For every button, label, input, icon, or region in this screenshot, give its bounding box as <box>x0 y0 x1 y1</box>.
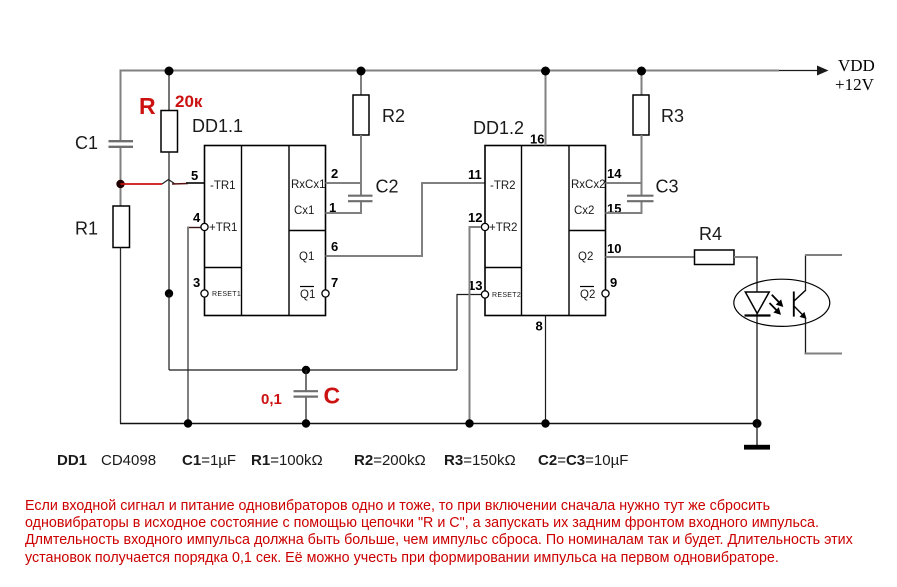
svg-text:R2: R2 <box>382 106 405 126</box>
values line DD1 CD4098 <box>57 452 156 469</box>
pin 11 -TR2 <box>468 167 516 192</box>
wire reset line up to RESET2 <box>457 295 482 371</box>
wire left branch from rail to C1 <box>120 70 122 141</box>
svg-text:R3: R3 <box>661 106 684 126</box>
svg-text:Если входной сигнал и питание: Если входной сигнал и питание одновибрат… <box>25 498 770 514</box>
junction dot RESET1 <box>165 289 173 297</box>
wire pin10 Q2 to R4 <box>606 256 695 258</box>
junction dot cap C bottom rail <box>302 419 310 427</box>
svg-text:C1=1µF: C1=1µF <box>182 452 236 469</box>
svg-text:DD1.1: DD1.1 <box>192 116 243 136</box>
svg-text:RxCx2: RxCx2 <box>571 179 606 191</box>
svg-text:Длмтельность входного импульса: Длмтельность входного импульса должна бы… <box>25 532 853 548</box>
svg-text:R: R <box>139 93 156 119</box>
junction dot cap C top <box>302 366 310 374</box>
wire Q1 pin6 to -TR2 pin11 <box>326 183 486 256</box>
svg-text:Q1: Q1 <box>300 289 315 301</box>
svg-text:6: 6 <box>331 239 338 254</box>
svg-text:Q2: Q2 <box>580 289 595 301</box>
svg-text:C3: C3 <box>656 177 679 197</box>
svg-text:Cx1: Cx1 <box>294 205 314 217</box>
wire R to RESET1 node <box>168 152 170 294</box>
wire +TR2 to bottom rail <box>470 227 482 424</box>
pin 9 Q2-bar bubble <box>580 275 617 301</box>
svg-text:2: 2 <box>331 166 338 181</box>
wire pin15 to C3 bottom <box>606 201 643 214</box>
svg-text:C2=C3=10µF: C2=C3=10µF <box>538 452 628 469</box>
junction dot +TR1 branch on bottom rail <box>184 419 192 427</box>
svg-text:DD1.2: DD1.2 <box>473 118 524 138</box>
wire VDD top rail <box>121 70 780 72</box>
wire R1 to bottom rail <box>120 248 122 424</box>
svg-text:9: 9 <box>610 275 617 290</box>
wire R2 to C2 <box>360 135 362 196</box>
optocoupler phototransistor Q <box>794 290 807 319</box>
pin 8 ground wire <box>536 316 546 424</box>
wire rail to resistor R <box>168 71 170 111</box>
svg-text:Q1: Q1 <box>299 251 314 263</box>
junction dot rail/R2 <box>357 67 366 76</box>
pin 7 Q1-bar bubble <box>300 275 338 301</box>
junction dot +TR2 bottom rail <box>465 419 473 427</box>
wire pin1 to C2 bottom <box>326 201 363 214</box>
wire reset line horizontal <box>169 369 457 371</box>
wire pin2 to C2 <box>326 182 362 184</box>
pin 6 Q1 <box>299 239 338 263</box>
svg-text:0,1: 0,1 <box>261 391 282 408</box>
capacitor C2 <box>348 196 373 202</box>
node A junction dot <box>116 180 124 188</box>
svg-text:-TR1: -TR1 <box>210 180 236 192</box>
wire +TR1 to bottom rail <box>188 227 201 424</box>
svg-text:20к: 20к <box>175 92 203 111</box>
svg-text:C2: C2 <box>376 177 399 197</box>
resistor R3 <box>633 95 649 135</box>
net label VDD +12V <box>835 56 875 94</box>
capacitor C1 <box>109 141 134 147</box>
svg-text:R2=200kΩ: R2=200kΩ <box>354 452 426 469</box>
ground symbol <box>744 424 770 450</box>
svg-text:Q2: Q2 <box>578 251 593 263</box>
svg-text:3: 3 <box>193 275 200 290</box>
junction dot rail/R <box>165 67 174 76</box>
red wire node A to -TR1 with hop <box>121 180 205 185</box>
svg-text:10: 10 <box>607 241 621 256</box>
svg-text:RxCx1: RxCx1 <box>291 179 326 191</box>
svg-text:+12V: +12V <box>835 75 875 94</box>
wire bottom ground rail <box>120 423 757 425</box>
svg-text:RESET2: RESET2 <box>492 292 521 299</box>
svg-text:одновибраторы в исходное состо: одновибраторы в исходное состояние с пом… <box>25 515 819 531</box>
svg-text:8: 8 <box>536 319 543 334</box>
svg-text:R3=150kΩ: R3=150kΩ <box>444 452 516 469</box>
wire pin14 to C3 <box>606 182 642 184</box>
svg-text:5: 5 <box>191 168 198 183</box>
wire LED anode vertical <box>756 257 758 424</box>
IC DD1.1 body <box>205 146 326 316</box>
IC DD1.2 body <box>485 146 606 316</box>
pin 3 RESET1 bubble <box>193 275 241 298</box>
pin 14 RxCx2 <box>571 166 622 191</box>
resistor R4 <box>695 250 735 265</box>
pin 16 VDD wire <box>530 70 546 147</box>
junction dot pin8 bottom rail <box>541 419 549 427</box>
pin 13 RESET2 bubble <box>468 278 521 299</box>
wire collector output <box>805 255 842 291</box>
optocoupler LED triangle <box>745 292 771 316</box>
resistor R2 <box>353 95 369 135</box>
svg-text:Cx2: Cx2 <box>574 205 594 217</box>
svg-text:R4: R4 <box>699 224 722 244</box>
pin 5 -TR1 <box>191 168 236 192</box>
junction dot ground node <box>753 419 762 428</box>
resistor R1 <box>113 206 130 248</box>
svg-text:+TR1: +TR1 <box>209 222 237 234</box>
wire cap C leads <box>305 370 307 424</box>
svg-text:установок получается порядка 0: установок получается порядка 0,1 сек. Её… <box>25 550 779 566</box>
svg-text:7: 7 <box>331 275 338 290</box>
pin 15 Cx2 <box>574 201 621 217</box>
wire rail to R3 <box>641 70 643 96</box>
VDD arrow <box>779 66 829 76</box>
junction dot rail/pin16 <box>541 67 550 76</box>
svg-text:4: 4 <box>193 210 201 225</box>
wire R4 to LED <box>734 257 757 259</box>
svg-text:+TR2: +TR2 <box>489 222 517 234</box>
wire RESET1 to reset line <box>168 294 170 371</box>
svg-text:11: 11 <box>468 167 482 182</box>
capacitor C3 <box>627 196 654 202</box>
optocoupler U1 ellipse <box>734 279 830 326</box>
svg-text:14: 14 <box>607 166 622 181</box>
svg-text:R1=100kΩ: R1=100kΩ <box>251 452 323 469</box>
wire R3 to C3 <box>641 135 643 196</box>
junction dot rail/R3 <box>637 67 646 76</box>
wire rail to R2 <box>360 70 362 96</box>
svg-text:DD1: DD1 <box>57 452 87 469</box>
svg-text:12: 12 <box>468 210 482 225</box>
pin 10 Q2 <box>578 241 621 263</box>
wire emitter output <box>805 318 843 354</box>
svg-text:VDD: VDD <box>838 56 875 75</box>
svg-text:R1: R1 <box>75 219 98 239</box>
wire C1 to node A <box>120 148 122 206</box>
svg-text:C1: C1 <box>75 133 98 153</box>
svg-text:16: 16 <box>530 132 544 147</box>
optocoupler light arrows <box>770 295 784 315</box>
svg-text:C: C <box>324 383 341 409</box>
pin 1 Cx1 <box>294 200 336 217</box>
capacitor C 0,1 <box>294 391 319 396</box>
svg-text:RESET1: RESET1 <box>212 291 241 298</box>
resistor R 20k <box>161 111 178 153</box>
svg-text:-TR2: -TR2 <box>490 180 516 192</box>
pin 2 RxCx1 <box>291 166 338 191</box>
pin 4 +TR1 bubble <box>193 210 237 234</box>
pin 12 +TR2 bubble <box>468 210 517 234</box>
svg-text:CD4098: CD4098 <box>101 452 156 469</box>
